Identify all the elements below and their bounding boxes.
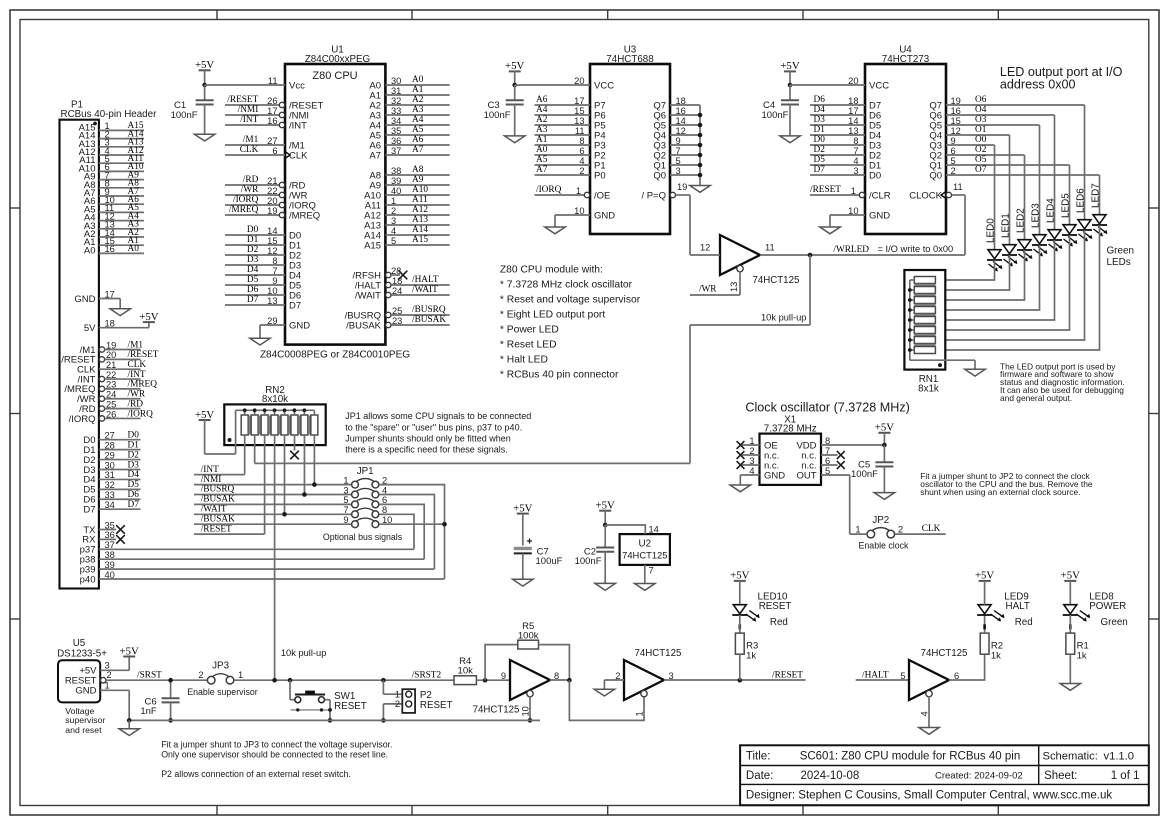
- svg-text:9: 9: [501, 671, 506, 681]
- P1 pin 40 wire net p40: [80, 570, 445, 586]
- U4 pin 8 D3 wire net D0: [810, 135, 881, 151]
- svg-text:D0: D0: [247, 225, 259, 235]
- svg-text:O7: O7: [975, 165, 987, 175]
- U1 pin 26 /RESET wire: [225, 95, 324, 111]
- svg-text:/BUSAK: /BUSAK: [201, 495, 235, 505]
- svg-text:36: 36: [391, 136, 401, 146]
- ground at U3 pin 10: [545, 227, 565, 234]
- svg-text:9: 9: [272, 276, 277, 286]
- junction at C1/+5V: [202, 83, 207, 88]
- U3 pin 7 Q2 wire: [653, 146, 700, 162]
- svg-text:A5: A5: [412, 125, 424, 135]
- power +5V at C1/U1: [195, 59, 214, 85]
- P1 pin 38 wire net p38: [80, 550, 425, 566]
- svg-text:A0: A0: [412, 75, 424, 85]
- connector P1 (RCBus 40-pin header): [60, 100, 158, 589]
- svg-text:13: 13: [848, 126, 858, 136]
- svg-text:23: 23: [392, 316, 402, 326]
- ground at U2 pin 7: [635, 584, 655, 591]
- P1 pin 35 wire net TX: [83, 520, 124, 536]
- svg-text:/BUSAK: /BUSAK: [346, 320, 382, 331]
- svg-text:A11: A11: [412, 195, 428, 205]
- svg-text:Q0: Q0: [929, 170, 942, 181]
- ground symbol at P1 pin 17: [110, 309, 130, 316]
- svg-text:37: 37: [391, 146, 401, 156]
- U1 pin 5 A15 wire: [364, 235, 450, 251]
- svg-text:100nF: 100nF: [575, 556, 602, 567]
- svg-text:v1.1.0: v1.1.0: [1104, 751, 1134, 763]
- U5 pin 1 GND wire: [100, 680, 129, 720]
- svg-text:A1: A1: [412, 85, 424, 95]
- P1 pin 6 wire net A10: [79, 162, 144, 174]
- svg-text:* RCBus 40 pin connector: * RCBus 40 pin connector: [500, 370, 619, 381]
- LED LED6 green: [1076, 188, 1093, 242]
- svg-text:12: 12: [700, 243, 710, 253]
- svg-text:LED5: LED5: [1061, 193, 1072, 218]
- P1 pin 19 wire net /M1: [80, 340, 144, 356]
- svg-text:100nF: 100nF: [851, 469, 878, 480]
- svg-text:* Reset and voltage supervisor: * Reset and voltage supervisor: [500, 295, 641, 306]
- svg-text:D7: D7: [814, 165, 826, 175]
- JP1 pin10 wire: [379, 523, 444, 525]
- P1 pin 29 wire net D2: [83, 450, 140, 466]
- P1 pin 28 wire net D1: [83, 440, 140, 456]
- svg-text:32: 32: [391, 96, 401, 106]
- ground at C1: [194, 134, 214, 141]
- net wire /WAIT: [194, 505, 351, 515]
- svg-text:A4: A4: [412, 115, 424, 125]
- svg-text:8: 8: [272, 256, 277, 266]
- U3 pin 6 P2 wire net A0: [535, 145, 606, 161]
- svg-text:/INT: /INT: [128, 370, 146, 380]
- svg-text:/M1: /M1: [243, 135, 259, 145]
- U1 pin 35 A5 wire: [369, 125, 449, 141]
- U1 pin 7 D4 wire: [225, 265, 301, 281]
- svg-text:/RESET: /RESET: [201, 524, 232, 534]
- svg-text:/RD: /RD: [243, 175, 259, 185]
- RN2 R4 stub to /SRST: [274, 435, 276, 680]
- svg-text:/IORQ: /IORQ: [69, 414, 96, 425]
- wire LED3 cathode to RN1: [935, 245, 1039, 310]
- svg-text:VCC: VCC: [594, 80, 614, 91]
- svg-text:D5: D5: [128, 480, 140, 490]
- svg-text:LED1: LED1: [1001, 213, 1012, 238]
- svg-text:7: 7: [825, 446, 830, 456]
- svg-text:A7: A7: [369, 150, 381, 161]
- U1 pin 11 Vcc wire: [205, 76, 305, 91]
- svg-text:6: 6: [579, 146, 584, 156]
- svg-text:LED7: LED7: [1091, 183, 1102, 208]
- svg-text:GND: GND: [764, 470, 785, 481]
- IC U1 Z84C00xxPEG Z80 CPU: [260, 44, 410, 360]
- G3 input grounded wire: [604, 680, 624, 689]
- U1 pin 19 /MREQ wire: [225, 205, 320, 221]
- svg-text:14: 14: [676, 116, 686, 126]
- svg-text:27: 27: [267, 136, 277, 146]
- junction on RN1 common: [908, 308, 912, 312]
- svg-text:/WRLED: /WRLED: [833, 245, 869, 255]
- svg-text:GND: GND: [74, 294, 95, 305]
- P1 pin 1 wire net A15: [79, 121, 144, 133]
- U1 pin 28 /RFSH no-connect: [353, 266, 408, 282]
- power +5V at LED8: [1061, 570, 1080, 605]
- U1 pin 30 A0 wire: [369, 75, 449, 91]
- capacitor C2 100nF: [575, 525, 615, 583]
- ground at X1 pin 4: [730, 485, 750, 492]
- U1 pin 12 D2 wire: [225, 245, 301, 261]
- junction on RN2 common rail: [273, 408, 277, 412]
- G3 enable circle pin 1: [634, 690, 647, 716]
- svg-text:Only one supervisor should be: Only one supervisor should be connected …: [161, 750, 388, 760]
- svg-text:Red: Red: [770, 617, 788, 628]
- junction on RN2 common rail: [283, 408, 287, 412]
- junction SW1 / ground bus: [328, 718, 333, 723]
- RN2 R1 stub to /INT: [244, 435, 246, 475]
- U4 pin 15 Q5 wire net O3: [929, 115, 1039, 131]
- svg-text:Created: 2024-09-02: Created: 2024-09-02: [935, 771, 1023, 782]
- svg-text:26: 26: [106, 409, 116, 419]
- svg-text:4: 4: [391, 226, 396, 236]
- wire LED5 cathode to RN1: [935, 235, 1069, 330]
- capacitor C1 100nF: [171, 85, 214, 134]
- svg-text:Fit a jumper shunt to JP3 to c: Fit a jumper shunt to JP3 to connect the…: [161, 739, 392, 749]
- svg-text:6: 6: [951, 146, 956, 156]
- junction on RN1 common: [908, 348, 912, 352]
- svg-text:D7: D7: [289, 300, 301, 311]
- junction on U3 Q-bus: [698, 123, 703, 128]
- U1 pin 27 /M1 wire: [225, 135, 305, 151]
- svg-text:/BUSAK: /BUSAK: [201, 514, 235, 524]
- junction /WRLED: [808, 253, 813, 258]
- svg-text:5: 5: [343, 495, 348, 505]
- svg-text:18: 18: [676, 96, 686, 106]
- svg-text:LEDs: LEDs: [1107, 257, 1131, 268]
- svg-text:O5: O5: [975, 155, 987, 165]
- svg-text:D3: D3: [247, 255, 259, 265]
- svg-text:Green: Green: [1101, 617, 1128, 628]
- svg-text:13: 13: [267, 296, 277, 306]
- svg-text:25: 25: [106, 399, 116, 409]
- note voltage supervisor: [65, 706, 105, 735]
- svg-text:OUT: OUT: [796, 470, 816, 481]
- U1 pin 10 D6 wire: [225, 285, 301, 301]
- svg-text:11: 11: [953, 182, 963, 192]
- P1 pin 18 5V: [84, 319, 149, 335]
- resistor R3 1k: [735, 615, 758, 680]
- svg-text:6: 6: [272, 146, 277, 156]
- svg-text:2: 2: [391, 206, 396, 216]
- svg-text:HALT: HALT: [1006, 601, 1030, 612]
- power +5V at U5: [120, 645, 139, 657]
- svg-text:D6: D6: [247, 285, 259, 295]
- svg-text:A9: A9: [412, 175, 424, 185]
- svg-text:* Halt LED: * Halt LED: [500, 355, 548, 366]
- svg-text:/INT: /INT: [201, 465, 219, 475]
- svg-text:10k pull-up: 10k pull-up: [281, 648, 326, 658]
- wire LED0 cathode to RN1: [935, 260, 994, 280]
- wire LED7 cathode to RN1: [935, 225, 1099, 350]
- junction on RN2 common rail: [293, 408, 297, 412]
- junction P2 / /SRST: [381, 678, 386, 683]
- svg-text:A0: A0: [128, 244, 140, 254]
- U1 pin 13 D7 wire: [225, 295, 301, 311]
- svg-text:11: 11: [765, 243, 775, 253]
- svg-text:22: 22: [267, 186, 277, 196]
- net wire /HALT to buffer G4: [856, 670, 909, 680]
- svg-text:30: 30: [391, 76, 401, 86]
- ground at U3 Q-bus: [690, 186, 710, 193]
- net wire /INT: [194, 465, 245, 475]
- LED LED0 green: [986, 218, 1003, 272]
- note Green LEDs: [1107, 246, 1134, 268]
- LED LED5 green: [1061, 193, 1078, 247]
- svg-text:1: 1: [851, 186, 856, 196]
- svg-text:LED2: LED2: [1016, 208, 1027, 233]
- U3 pin 10 GND wire: [555, 206, 615, 227]
- G4 output wire to R2: [949, 654, 985, 680]
- svg-text:DS1233-5+: DS1233-5+: [57, 649, 107, 660]
- U1 pin 15 D1 wire: [225, 235, 301, 251]
- svg-text:35: 35: [105, 520, 115, 530]
- svg-text:30: 30: [105, 460, 115, 470]
- svg-text:D1: D1: [814, 125, 826, 135]
- P1 pin 8 wire net A8: [84, 179, 144, 191]
- U4 pin 13 D4 wire net D1: [810, 125, 881, 141]
- U1 pin 29 GND wire: [260, 316, 310, 338]
- U1 pin 2 A12 wire: [364, 205, 450, 221]
- LED LED8 POWER green: [1063, 591, 1128, 629]
- svg-text:39: 39: [391, 176, 401, 186]
- junction on RN1 common: [908, 318, 912, 322]
- X1 pin 4 GND wire: [740, 466, 759, 485]
- svg-text:3: 3: [391, 216, 396, 226]
- svg-text:* Power LED: * Power LED: [500, 325, 559, 336]
- svg-text:A7: A7: [536, 165, 548, 175]
- junction G2 output: [567, 678, 572, 683]
- svg-text:RESET: RESET: [420, 700, 453, 711]
- svg-text:/WAIT: /WAIT: [412, 285, 438, 295]
- ground at C4: [780, 136, 800, 143]
- U4 pin 7 D2 wire net D2: [810, 145, 881, 161]
- svg-text:19: 19: [106, 340, 116, 350]
- U3 pin 16 Q6 wire: [653, 106, 700, 122]
- svg-text:20: 20: [106, 350, 116, 360]
- svg-text:7: 7: [649, 566, 654, 576]
- svg-text:supervisor: supervisor: [65, 715, 105, 725]
- svg-text:3: 3: [343, 485, 348, 495]
- G1 enable pin 13 wire net /WR: [690, 265, 743, 295]
- svg-text:D0: D0: [814, 135, 826, 145]
- svg-text:24: 24: [392, 286, 402, 296]
- note LED output port usage: [1000, 361, 1125, 403]
- svg-text:D7: D7: [247, 295, 259, 305]
- svg-text:/WAIT: /WAIT: [355, 290, 381, 301]
- svg-text:Enable clock: Enable clock: [859, 540, 909, 550]
- svg-text:2: 2: [749, 446, 754, 456]
- svg-text:/WR: /WR: [128, 390, 146, 400]
- X1 pin 5 OUT wire: [821, 466, 850, 534]
- svg-text:D2: D2: [247, 245, 259, 255]
- svg-text:21: 21: [106, 360, 116, 370]
- power +5V at RN2: [195, 409, 236, 454]
- P1 pin 31 wire net D4: [83, 470, 140, 486]
- P1 pin 2 wire net A14: [79, 129, 144, 141]
- svg-text:RESET: RESET: [759, 601, 792, 612]
- svg-text:SC601: Z80 CPU module for RCBu: SC601: Z80 CPU module for RCBus 40 pin: [800, 751, 1021, 763]
- svg-text:+5V: +5V: [195, 59, 214, 71]
- svg-text:32: 32: [105, 480, 115, 490]
- svg-text:A15: A15: [364, 240, 381, 251]
- heading LED output port: [1000, 65, 1123, 91]
- svg-text:* Reset LED: * Reset LED: [500, 340, 557, 351]
- junction R3 / /RESET: [738, 678, 743, 683]
- svg-text:/NMI: /NMI: [201, 475, 222, 485]
- wire /SRST JP3 to R4: [234, 679, 454, 681]
- P1 pin 9 wire net A7: [84, 187, 144, 199]
- switch SW1 RESET push-button: [290, 680, 367, 720]
- svg-text:28: 28: [391, 266, 401, 276]
- svg-text:A7: A7: [412, 145, 424, 155]
- G2 output wire: [550, 679, 569, 681]
- svg-text:29: 29: [105, 450, 115, 460]
- svg-text:74HCT125: 74HCT125: [921, 648, 968, 659]
- P1 pin 17 GND: [74, 289, 120, 309]
- P1 pin 5 wire net A11: [79, 154, 144, 166]
- svg-text:1: 1: [576, 186, 581, 196]
- U1 pin 21 /RD wire: [225, 175, 306, 191]
- svg-text:74HCT273: 74HCT273: [882, 54, 930, 65]
- svg-text:A8: A8: [412, 165, 424, 175]
- svg-text:5: 5: [951, 156, 956, 166]
- U3 pin 19 /P=Q wire: [641, 182, 690, 201]
- svg-text:40: 40: [105, 570, 115, 580]
- P1 pin 26 wire net /IORQ: [69, 409, 154, 425]
- P1 pin 10 wire net A6: [84, 195, 144, 207]
- svg-text:2: 2: [107, 670, 112, 680]
- svg-text:36: 36: [105, 530, 115, 540]
- svg-text:D0: D0: [128, 431, 140, 441]
- svg-text:7: 7: [343, 505, 348, 515]
- svg-text:P0: P0: [594, 170, 606, 181]
- svg-text:2024-10-08: 2024-10-08: [801, 770, 860, 782]
- U4 pin 19 Q7 wire net O6: [929, 95, 1084, 111]
- svg-text:35: 35: [391, 126, 401, 136]
- X1 pin 7 no-connect: [821, 446, 845, 459]
- svg-text:21: 21: [267, 176, 277, 186]
- svg-text:A13: A13: [412, 215, 428, 225]
- note JP2 usage: [920, 471, 1093, 497]
- ground at RN1: [965, 369, 985, 376]
- junction RN2-R8 / /NMI: [312, 482, 317, 487]
- wire LED6 cathode to RN1: [935, 230, 1084, 340]
- svg-text:5: 5: [900, 671, 905, 681]
- svg-text:12: 12: [267, 246, 277, 256]
- P1 pin 24 wire net /WR: [77, 390, 146, 406]
- svg-text:Red: Red: [1015, 617, 1033, 628]
- U3 pin 15 P6 wire net A4: [535, 105, 606, 121]
- junction SW1 / /SRST: [288, 678, 293, 683]
- svg-text:D5: D5: [247, 275, 259, 285]
- svg-text:7: 7: [272, 266, 277, 276]
- junction at C2: [603, 523, 608, 528]
- U1 pin 25 /BUSRQ wire: [345, 305, 450, 321]
- title block: [740, 745, 1149, 805]
- U1 pin 39 A9 wire: [369, 175, 449, 191]
- svg-text:A4: A4: [536, 105, 548, 115]
- capacitor C6 1nF: [140, 680, 179, 720]
- junction RN2-R5 / /WAIT: [282, 512, 287, 517]
- U1 pin 6 CLK wire: [225, 145, 308, 161]
- svg-text:/SRST2: /SRST2: [412, 670, 442, 680]
- power +5V at LED10: [730, 570, 749, 605]
- RN2 R6 stub no-connect: [290, 435, 299, 459]
- U4 pin 18 D7 wire net D6: [810, 95, 881, 111]
- P1 pin 27 wire net D0: [83, 431, 140, 447]
- ground at G3 input: [594, 689, 614, 696]
- svg-text:39: 39: [105, 560, 115, 570]
- svg-text:74HCT125: 74HCT125: [635, 648, 682, 659]
- svg-text:16: 16: [105, 244, 115, 254]
- wire R4 to buffer G2 net /SRST2: [412, 670, 510, 680]
- svg-text:19: 19: [267, 206, 277, 216]
- P1 pin 30 wire net D3: [83, 460, 140, 476]
- svg-text:JP1: JP1: [357, 466, 374, 477]
- resistor R2 1k: [980, 615, 1003, 662]
- RN1 common wire to ground: [910, 360, 975, 369]
- svg-text:1nF: 1nF: [140, 706, 157, 717]
- svg-text:27: 27: [105, 431, 115, 441]
- svg-text:1: 1: [238, 670, 243, 680]
- svg-text:8: 8: [853, 136, 858, 146]
- svg-text:10: 10: [574, 206, 584, 216]
- svg-text:LED4: LED4: [1046, 198, 1057, 223]
- svg-text:GND: GND: [594, 210, 615, 221]
- ground bus wire: [129, 719, 540, 721]
- U1 pin 33 A3 wire: [369, 105, 449, 121]
- svg-text:D4: D4: [814, 105, 826, 115]
- svg-text:address 0x00: address 0x00: [1000, 77, 1076, 91]
- U1 CLK input triangle: [285, 152, 290, 159]
- ground at C5: [874, 493, 894, 500]
- svg-text:Z84C00xxPEG: Z84C00xxPEG: [305, 54, 370, 65]
- svg-text:A5: A5: [536, 155, 548, 165]
- U1 pin 40 A10 wire: [364, 185, 450, 201]
- power +5V at C3/U3: [505, 60, 524, 85]
- junction U5 GND / ground bus: [127, 718, 132, 723]
- wire O7 to LED7 anode: [1099, 175, 1101, 214]
- power +5V at P1 pin 18: [139, 311, 158, 323]
- junction C6 bottom: [168, 718, 173, 723]
- U3 pin 11 P4 wire net A3: [535, 125, 606, 141]
- resistor R1 1k: [1066, 615, 1089, 684]
- U3 pin 3 Q0 wire: [653, 166, 700, 182]
- U4 pin 17 D6 wire net D4: [810, 105, 881, 121]
- svg-text:1: 1: [343, 475, 348, 485]
- junction on U3 Q-bus: [698, 113, 703, 118]
- U4 pin 10 GND wire: [830, 206, 890, 227]
- svg-text:/RESET: /RESET: [772, 670, 803, 680]
- svg-text:/HALT: /HALT: [412, 275, 439, 285]
- svg-text:/MREQ: /MREQ: [128, 380, 158, 390]
- svg-text:8x10k: 8x10k: [262, 394, 288, 405]
- svg-text:11: 11: [268, 76, 278, 86]
- G1 output wire pin 11 net /WRLED: [760, 243, 965, 256]
- svg-text:JP3: JP3: [212, 660, 229, 671]
- svg-text:10k: 10k: [458, 666, 474, 677]
- buffer U2B 74HCT125 gate G2: [473, 660, 560, 716]
- svg-text:LED3: LED3: [1031, 203, 1042, 228]
- svg-text:4: 4: [853, 156, 858, 166]
